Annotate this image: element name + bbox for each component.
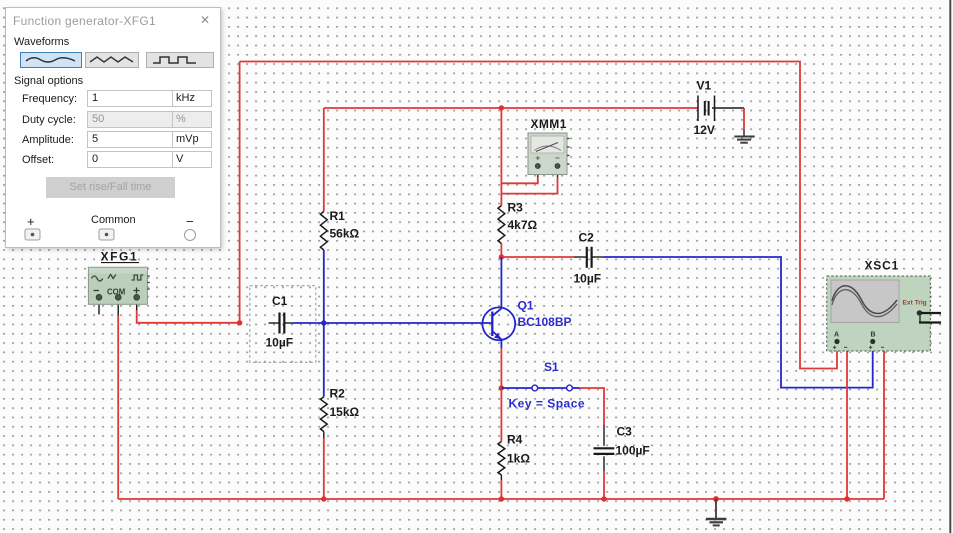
wire: XFG1 - unconnected stub — [98, 300, 100, 315]
label V1 value 12V — [694, 79, 715, 138]
svg-text:C1: C1 — [272, 294, 288, 308]
wire: XMM1 + terminal to R3 branch — [501, 169, 537, 184]
wire: signal net up left side to top rail — [239, 62, 241, 323]
multimeter XMM1 — [528, 133, 570, 175]
wire: XFG1 + output stub — [137, 300, 240, 323]
node: base junction (blue) — [321, 320, 326, 325]
svg-text:XFG1: XFG1 — [101, 250, 139, 264]
wire: S1 right side to C3 — [580, 388, 605, 446]
label C2 value 10uF — [574, 231, 602, 286]
label C1 value 10uF — [266, 294, 294, 350]
capacitor C2 — [587, 247, 592, 268]
svg-text:Ext Trig: Ext Trig — [903, 300, 927, 307]
svg-text:10µF: 10µF — [266, 336, 294, 350]
label R1 value 56k — [330, 209, 360, 241]
svg-text:S1: S1 — [544, 360, 559, 374]
svg-text:Key = Space: Key = Space — [509, 397, 586, 411]
label XFG1 — [101, 250, 140, 264]
wire: emitter node down to R4 — [500, 388, 502, 442]
svg-text:XMM1: XMM1 — [531, 117, 567, 131]
svg-text:4k7Ω: 4k7Ω — [508, 218, 538, 232]
triangle wave button — [85, 52, 139, 68]
node: R2 ground junction — [321, 496, 326, 501]
label S1 Key = Space — [509, 360, 586, 411]
wire: R2 bottom to ground rail — [323, 432, 325, 500]
resistor R3 — [498, 206, 505, 244]
svg-text:A: A — [834, 332, 839, 339]
function generator dialog — [5, 7, 221, 248]
wire: XMM1 - terminal to R3 branch — [501, 169, 557, 194]
resistor R1 — [320, 212, 327, 251]
wire: base node down to R2 — [323, 323, 325, 397]
wire: VCC rail — [324, 107, 694, 109]
svg-text:12V: 12V — [694, 123, 715, 137]
svg-text:C2: C2 — [579, 231, 595, 245]
function generator icon XFG1 — [88, 267, 149, 304]
wire: V1 + stub from rail — [694, 107, 698, 109]
wire: R1 bottom to base node — [323, 250, 325, 323]
selection box around C1 — [250, 286, 316, 363]
label R2 value 15k — [330, 387, 360, 420]
svg-text:R1: R1 — [330, 209, 346, 223]
wire: VCC junction down to R3 — [500, 108, 502, 206]
svg-text:BC108BP: BC108BP — [518, 315, 572, 329]
svg-text:C3: C3 — [617, 425, 633, 439]
svg-text:R3: R3 — [508, 201, 524, 215]
node: R4 ground junction — [499, 496, 504, 501]
svg-text:100µF: 100µF — [616, 444, 650, 458]
svg-text:R4: R4 — [507, 433, 523, 447]
svg-text:V1: V1 — [697, 79, 712, 93]
resistor R4 — [498, 442, 505, 476]
wire: Q1 collector up to node — [500, 257, 502, 308]
svg-text:1kΩ: 1kΩ — [507, 452, 530, 466]
wire: scope B- black stub — [874, 343, 884, 352]
ground (under V1) — [734, 130, 754, 143]
wire: collector node to C2 left plate — [501, 256, 586, 258]
wire: bottom ground rail — [118, 498, 884, 500]
svg-text:XSC1: XSC1 — [865, 259, 900, 273]
resistor R2 — [320, 397, 327, 432]
wire: C3 bottom to ground rail — [603, 456, 605, 499]
wire: V1 - stub to ground drop — [712, 108, 744, 130]
switch S1 — [501, 385, 579, 391]
wire: R4 bottom to ground rail — [500, 475, 502, 499]
node: collector junction — [499, 254, 504, 259]
canvas right border — [949, 0, 951, 533]
wire: scope A+ down-left (signal probe) black stub — [839, 343, 848, 352]
battery V1 — [698, 96, 715, 122]
node: VCC junction above R3 — [499, 105, 504, 110]
svg-text:B: B — [871, 332, 876, 339]
svg-text:10µF: 10µF — [574, 272, 602, 286]
svg-text:56kΩ: 56kΩ — [330, 227, 360, 241]
wire: scope A- down to ground rail — [846, 352, 848, 499]
label XMM1 — [531, 117, 567, 131]
capacitor C1 — [269, 313, 285, 334]
label R4 value 1k — [507, 433, 530, 466]
wire: R3 bottom to collector node — [500, 244, 502, 258]
oscilloscope XSC1 — [827, 276, 941, 351]
square wave button — [146, 52, 214, 68]
node: scope A- ground junction — [844, 496, 849, 501]
ground (bottom rail) — [706, 499, 726, 525]
label XSC1 — [865, 259, 900, 273]
node: emitter junction at S1 — [499, 385, 504, 390]
wire: XFG1 COM stub down to ground rail — [117, 300, 119, 500]
svg-text:Q1: Q1 — [518, 299, 534, 313]
sine wave button (selected) — [20, 52, 82, 68]
svg-text:R2: R2 — [330, 387, 346, 401]
wire: scope B- down to ground rail — [883, 352, 885, 499]
node: signal junction at C1 input — [237, 320, 242, 325]
label R3 value 4k7 — [508, 201, 538, 233]
node: C3 ground junction — [601, 496, 606, 501]
wire: VCC rail down to R1 — [323, 108, 325, 212]
node: ground symbol junction on rail — [713, 496, 719, 502]
wire: Q1 emitter down to S1 node — [500, 340, 502, 388]
capacitor C3 (horizontal plates) — [594, 448, 615, 454]
transistor Q1 BC108BP — [482, 307, 515, 340]
svg-text:15kΩ: 15kΩ — [330, 405, 360, 419]
label C3 value 100uF — [616, 425, 650, 458]
wire: base wire from C1 to Q1 — [285, 322, 492, 324]
wire: C2 right plate to scope B input (blue net) — [592, 257, 872, 388]
wire: top signal rail to scope — [240, 62, 837, 369]
label Q1 BC108BP — [518, 299, 572, 330]
